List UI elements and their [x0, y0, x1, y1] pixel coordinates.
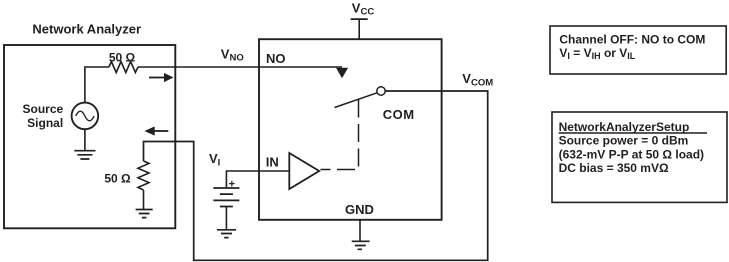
svg-text:Signal: Signal [27, 116, 63, 130]
resistor R2 zigzag (vertical) [138, 161, 149, 190]
source signal circle [72, 103, 99, 130]
note box 2 [552, 112, 727, 202]
note box 1 [550, 26, 726, 74]
title underline [559, 132, 707, 134]
svg-text:Channel OFF: NO to COM: Channel OFF: NO to COM [559, 32, 705, 46]
ground under battery [217, 230, 236, 238]
sine wave inside source [76, 111, 94, 121]
VCC power bar [351, 18, 368, 20]
svg-text:COM: COM [383, 107, 415, 122]
ground under source [84, 129, 86, 150]
svg-text:50 Ω: 50 Ω [104, 171, 131, 185]
switch contact circle [377, 87, 385, 95]
svg-text:IN: IN [266, 154, 279, 169]
switch lever [335, 93, 377, 108]
wire loop: R2 top right, down, along bottom, up to VCOM [144, 91, 488, 260]
resistor R1 zigzag [109, 62, 138, 73]
battery V1 stem [225, 171, 227, 188]
svg-text:(632-mV P-P at 50 Ω load): (632-mV P-P at 50 Ω load) [559, 147, 704, 161]
VCC stem [358, 19, 360, 39]
ground under IC [352, 241, 370, 249]
GND stem below box [359, 220, 361, 242]
svg-text:DC bias = 350 mVΩ: DC bias = 350 mVΩ [559, 161, 669, 175]
svg-text:GND: GND [345, 202, 374, 217]
dashed control line [321, 100, 359, 170]
svg-text:Source: Source [23, 102, 64, 116]
svg-text:Network Analyzer: Network Analyzer [32, 22, 141, 37]
svg-text:50 Ω: 50 Ω [109, 50, 136, 64]
wire: source to R1 [85, 67, 109, 103]
IC box (analog switch) [259, 39, 442, 220]
battery plates [213, 188, 239, 207]
wire: R2 bottom to ground [143, 190, 145, 210]
arrow right (signal direction) [149, 77, 165, 79]
wire: R1 to NO pin [138, 66, 342, 68]
battery bottom stem [225, 207, 227, 230]
arrow left (return direction) [154, 130, 168, 132]
svg-text:NO: NO [266, 51, 286, 66]
Network Analyzer box [4, 45, 175, 228]
wire: battery to IN pin to buffer [226, 170, 289, 172]
svg-text:NetworkAnalyzerSetup: NetworkAnalyzerSetup [559, 120, 690, 134]
buffer amplifier U1 [289, 153, 319, 189]
filled triangle node on NO wire [336, 68, 348, 78]
ground under R2 [136, 210, 153, 218]
svg-text:Source power = 0 dBm: Source power = 0 dBm [559, 134, 689, 148]
